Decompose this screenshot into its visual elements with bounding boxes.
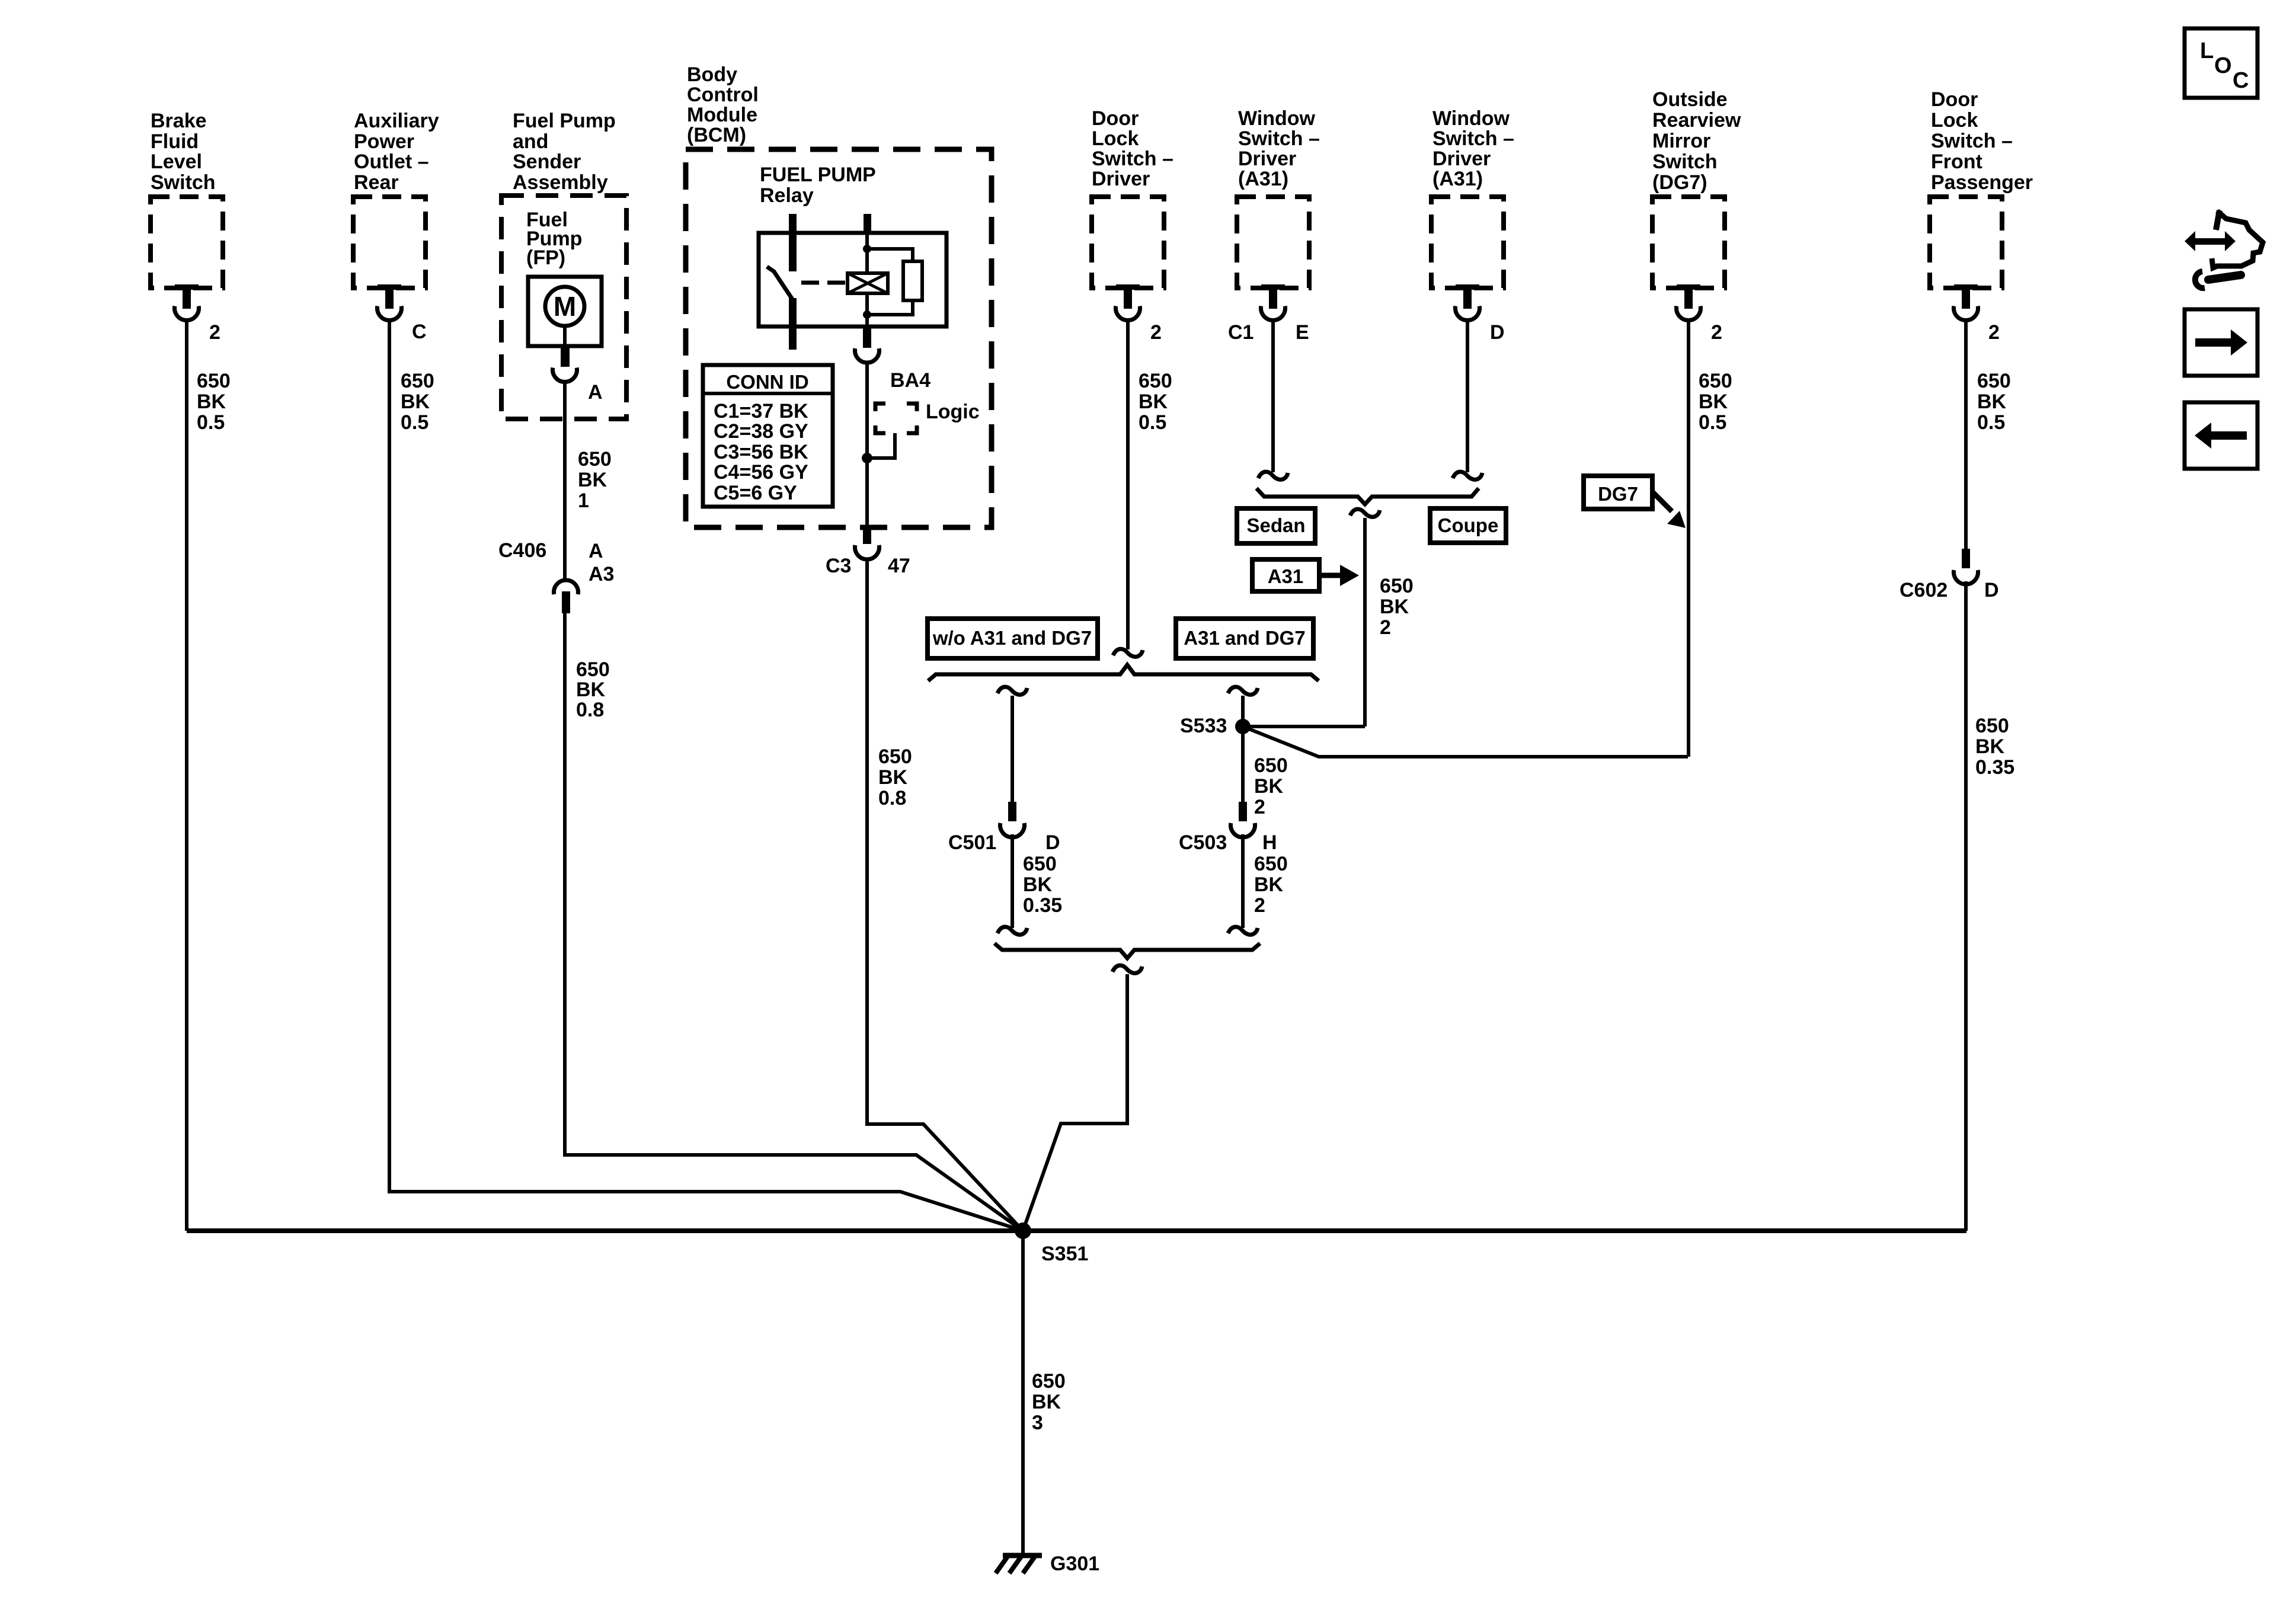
- relay resistor: [903, 261, 922, 300]
- svg-text:Door: Door: [1931, 88, 1978, 111]
- svg-text:650: 650: [1975, 715, 2009, 737]
- svg-text:Switch: Switch: [1652, 151, 1718, 173]
- wire: brake fluid switch to S351 (650 BK 0.5): [185, 320, 188, 1231]
- wire: C602 to S351 (650 BK 0.35): [1964, 581, 1968, 1231]
- wire: right option branch to S533: [1241, 696, 1245, 802]
- svg-text:0.35: 0.35: [1023, 894, 1062, 917]
- svg-text:D: D: [1984, 579, 1999, 601]
- svg-text:C: C: [412, 321, 427, 343]
- svg-text:Passenger: Passenger: [1931, 171, 2033, 194]
- wire label 650 BK 2: [1380, 575, 1414, 639]
- wire: logic to relay output: [867, 433, 895, 458]
- svg-text:Switch –: Switch –: [1092, 148, 1173, 170]
- svg-text:Front: Front: [1931, 151, 1982, 173]
- component label: Door Lock Switch - Front Passenger: [1931, 88, 2033, 194]
- svg-text:2: 2: [1254, 796, 1265, 818]
- option box: Sedan: [1237, 508, 1315, 543]
- svg-text:1: 1: [578, 489, 589, 512]
- component label: Brake Fluid Level Switch: [151, 110, 216, 194]
- wire: BCM C3-47 to S351 (650 BK 0.8): [867, 558, 1023, 1231]
- svg-text:C3: C3: [826, 555, 851, 577]
- component label: Window Switch - Driver (A31) #1: [1238, 107, 1320, 190]
- svg-text:BK: BK: [578, 469, 607, 491]
- svg-text:BK: BK: [1975, 735, 2005, 758]
- svg-text:2: 2: [1150, 321, 1162, 344]
- wire end hook: [1228, 927, 1258, 934]
- brace: option split: [928, 665, 1319, 681]
- svg-text:Lock: Lock: [1931, 109, 1978, 132]
- svg-text:S351: S351: [1041, 1243, 1088, 1265]
- wire label 650 BK 2: [1254, 853, 1288, 917]
- motor M circle: [545, 287, 584, 326]
- wire end hook: [1453, 472, 1482, 479]
- svg-text:2: 2: [209, 321, 220, 344]
- icon: double arrow: [2193, 238, 2228, 245]
- svg-text:A3: A3: [589, 563, 614, 585]
- wire end hook: [997, 927, 1027, 934]
- svg-text:Driver: Driver: [1432, 148, 1491, 170]
- hook: left option branch: [997, 687, 1027, 694]
- svg-text:(DG7): (DG7): [1652, 171, 1707, 194]
- callout box: DG7: [1584, 476, 1652, 509]
- svg-text:Assembly: Assembly: [513, 171, 608, 194]
- svg-text:FUEL PUMP: FUEL PUMP: [760, 164, 876, 186]
- component label: Window Switch - Driver (A31) #2: [1432, 107, 1514, 190]
- svg-text:650: 650: [1032, 1370, 1066, 1393]
- connector symbol C3 pin 47: [863, 527, 871, 544]
- svg-text:Coupe: Coupe: [1438, 514, 1499, 536]
- svg-text:BA4: BA4: [890, 369, 930, 392]
- connector C501: [1008, 802, 1016, 821]
- svg-text:D: D: [1045, 831, 1060, 854]
- brace: window switches join: [1256, 488, 1479, 504]
- svg-text:650: 650: [1254, 853, 1288, 875]
- svg-text:Rear: Rear: [354, 171, 399, 194]
- motor box FP: [528, 277, 602, 346]
- wire: aux power outlet to S351 (650 BK 0.5): [389, 320, 1023, 1231]
- wire label 650 BK 0.5: [1139, 370, 1172, 434]
- connector C503: [1239, 802, 1247, 821]
- wire label 650 BK 0.5: [1977, 370, 2011, 434]
- wire: C501 down (650 BK 0.35): [1011, 834, 1014, 928]
- component label: Door Lock Switch - Driver: [1092, 107, 1173, 190]
- svg-text:2: 2: [1988, 321, 2000, 344]
- svg-text:650: 650: [1380, 575, 1414, 597]
- svg-text:BK: BK: [1139, 391, 1168, 413]
- svg-text:A31 and DG7: A31 and DG7: [1184, 627, 1305, 649]
- svg-text:2: 2: [1254, 894, 1265, 917]
- legend box: LOC: [2185, 28, 2257, 98]
- svg-text:Outside: Outside: [1652, 88, 1728, 111]
- svg-text:Relay: Relay: [760, 184, 814, 207]
- svg-text:(BCM): (BCM): [687, 124, 746, 146]
- svg-text:BK: BK: [576, 678, 606, 701]
- wire: window brace to S533 (650 BK 2): [1363, 518, 1367, 726]
- svg-text:C2=38 GY: C2=38 GY: [714, 420, 808, 443]
- svg-text:C5=6 GY: C5=6 GY: [714, 482, 797, 504]
- wire label 650 BK 0.8: [576, 658, 610, 721]
- wire label 650 BK 0.5: [1699, 370, 1732, 434]
- relay coil box: [848, 273, 888, 293]
- svg-text:0.5: 0.5: [1699, 411, 1726, 434]
- module box: BCM: [686, 149, 992, 527]
- CONN ID table box: [703, 365, 833, 507]
- junction dot logic: [862, 453, 872, 463]
- svg-text:Brake: Brake: [151, 110, 207, 132]
- svg-text:Fluid: Fluid: [151, 130, 199, 153]
- wire label 650 BK 0.8: [878, 745, 912, 809]
- svg-text:Switch –: Switch –: [1432, 127, 1514, 150]
- connector box: Auxiliary Power Outlet: [353, 197, 426, 288]
- option box: A31 and DG7: [1176, 619, 1313, 658]
- svg-text:0.5: 0.5: [401, 411, 428, 434]
- connector box: Door Lock Switch Driver: [1092, 197, 1164, 288]
- svg-text:0.5: 0.5: [197, 411, 225, 434]
- svg-text:0.5: 0.5: [1139, 411, 1166, 434]
- logic box: [875, 404, 917, 433]
- svg-text:A: A: [589, 540, 603, 562]
- wire end hook: [1258, 472, 1288, 479]
- svg-text:C1=37 BK: C1=37 BK: [714, 400, 808, 422]
- svg-text:C: C: [2233, 68, 2249, 93]
- connector symbol: passenger door lock pin: [1954, 284, 1978, 320]
- svg-text:L: L: [2200, 39, 2214, 63]
- connector symbol: window switch 1 pin: [1261, 284, 1285, 320]
- wire label 650 BK 1: [578, 448, 612, 512]
- component label: Outside Rearview Mirror Switch (DG7): [1652, 88, 1741, 194]
- wire label 650 BK 0.5: [197, 370, 231, 434]
- icon: body outline: [2216, 210, 2220, 230]
- svg-text:C503: C503: [1179, 831, 1227, 854]
- wire: S533 to mirror switch branch: [1243, 726, 1688, 757]
- svg-text:H: H: [1262, 831, 1277, 854]
- svg-text:C406: C406: [498, 539, 546, 562]
- relay K1: FUEL PUMP Relay box: [759, 233, 946, 327]
- relay internal resistor branch: [867, 249, 913, 315]
- svg-text:C602: C602: [1900, 579, 1948, 601]
- relay coil X: [848, 273, 888, 293]
- svg-text:650: 650: [576, 658, 610, 681]
- brace: ground join: [994, 943, 1260, 958]
- relay switch blade: [767, 267, 792, 299]
- option box: w/o A31 and DG7: [928, 619, 1098, 658]
- svg-text:O: O: [2214, 53, 2232, 78]
- svg-text:S533: S533: [1180, 715, 1227, 737]
- svg-text:650: 650: [1699, 370, 1732, 392]
- svg-text:Power: Power: [354, 130, 414, 153]
- connector symbol: window switch 2 pin: [1456, 284, 1480, 320]
- svg-text:(A31): (A31): [1238, 168, 1288, 190]
- connector box: Window Switch Driver 2: [1431, 197, 1504, 288]
- wire: window switch 2 down to brace: [1466, 320, 1469, 472]
- relay junction dot upper: [863, 245, 871, 253]
- hook: right option branch: [1228, 687, 1258, 694]
- svg-text:Driver: Driver: [1238, 148, 1296, 170]
- wire: motor to pin A: [563, 326, 567, 346]
- hook below window brace: [1350, 509, 1380, 517]
- svg-text:Switch: Switch: [151, 171, 216, 194]
- ground G301: [1003, 1553, 1042, 1558]
- component label: Body Control Module (BCM): [687, 63, 759, 146]
- svg-text:A31: A31: [1268, 565, 1304, 587]
- callout box: A31: [1252, 559, 1319, 591]
- svg-text:Door: Door: [1092, 107, 1139, 130]
- svg-text:C501: C501: [948, 831, 996, 854]
- svg-text:0.5: 0.5: [1977, 411, 2005, 434]
- wire: fuel pump to C406 (650 BK 1): [563, 381, 567, 580]
- wire: C406 to S351 (650 BK 0.8): [565, 613, 1023, 1231]
- svg-text:47: 47: [888, 555, 910, 577]
- connector C602: [1962, 549, 1970, 568]
- A31 arrow: [1319, 573, 1340, 578]
- svg-text:Module: Module: [687, 104, 757, 126]
- svg-text:DG7: DG7: [1598, 483, 1638, 505]
- svg-text:BK: BK: [197, 391, 226, 413]
- DG7 arrow: [1652, 492, 1672, 511]
- svg-text:M: M: [554, 291, 576, 322]
- svg-text:650: 650: [578, 448, 612, 470]
- relay linkage dashed line: [801, 281, 845, 285]
- wire: mirror switch to S533 (650 BK 0.5): [1687, 320, 1690, 757]
- svg-text:0.8: 0.8: [576, 699, 604, 721]
- svg-text:Switch –: Switch –: [1238, 127, 1320, 150]
- connector box: Outside Rearview Mirror Switch: [1652, 197, 1725, 288]
- svg-text:BK: BK: [878, 766, 908, 789]
- svg-text:0.35: 0.35: [1975, 756, 2014, 779]
- wire end hook: [1113, 649, 1143, 657]
- wire: C503 down (650 BK 2): [1241, 834, 1245, 928]
- wire: S533 to window brace wire: [1243, 725, 1365, 728]
- svg-text:650: 650: [878, 745, 912, 768]
- wire: door lock switch driver (650 BK 0.5): [1126, 320, 1130, 649]
- svg-text:Fuel Pump: Fuel Pump: [513, 110, 616, 132]
- svg-text:CONN ID: CONN ID: [726, 371, 808, 393]
- icon box: arrow right: [2185, 309, 2257, 376]
- svg-text:BK: BK: [1699, 391, 1728, 413]
- svg-text:650: 650: [197, 370, 231, 392]
- icon: wrench: [2208, 275, 2241, 280]
- svg-text:Auxiliary: Auxiliary: [354, 110, 439, 132]
- connector symbol: brake fluid switch pin: [175, 284, 199, 320]
- svg-text:650: 650: [1977, 370, 2011, 392]
- svg-text:650: 650: [401, 370, 434, 392]
- svg-text:C1: C1: [1228, 321, 1253, 344]
- svg-text:650: 650: [1023, 853, 1057, 875]
- svg-text:BK: BK: [1032, 1391, 1061, 1413]
- connector symbol: fuel pump pin A: [561, 346, 570, 367]
- node S351: [1015, 1222, 1031, 1239]
- wire: left option branch to C501: [1011, 696, 1014, 802]
- svg-text:Outlet –: Outlet –: [354, 151, 429, 173]
- relay junction dot lower: [863, 311, 871, 319]
- svg-text:(A31): (A31): [1432, 168, 1483, 190]
- svg-text:650: 650: [1139, 370, 1172, 392]
- svg-text:w/o A31 and DG7: w/o A31 and DG7: [932, 627, 1092, 649]
- svg-text:Control: Control: [687, 84, 759, 106]
- wire: relay to BCM edge: [865, 361, 869, 527]
- relay pin: coil top: [864, 214, 871, 233]
- svg-text:E: E: [1296, 321, 1309, 344]
- svg-text:C3=56 BK: C3=56 BK: [714, 441, 808, 463]
- connector symbol BA4: [863, 327, 871, 348]
- svg-text:Level: Level: [151, 151, 202, 173]
- wire: window switch 1 down to brace: [1271, 320, 1275, 472]
- relay internal wire: coil branch: [865, 233, 869, 327]
- svg-text:0.8: 0.8: [878, 787, 906, 809]
- svg-text:G301: G301: [1050, 1553, 1099, 1575]
- component label: Auxiliary Power Outlet - Rear: [354, 110, 439, 194]
- connector box: Window Switch Driver 1: [1237, 197, 1309, 288]
- icon box: arrow left: [2185, 402, 2257, 469]
- svg-text:2: 2: [1380, 616, 1391, 639]
- svg-text:Sender: Sender: [513, 151, 581, 173]
- wire label 650 BK 0.35: [1975, 715, 2014, 779]
- svg-text:Window: Window: [1432, 107, 1510, 130]
- component label: Fuel Pump and Sender Assembly: [513, 110, 616, 194]
- wire label 650 BK 0.5: [401, 370, 434, 434]
- wire label 650 BK 2 (below S533): [1254, 754, 1288, 818]
- svg-text:Window: Window: [1238, 107, 1316, 130]
- svg-text:and: and: [513, 130, 548, 153]
- connector symbol: door lock switch driver pin: [1116, 284, 1140, 320]
- connector box: Door Lock Switch Front Passenger: [1930, 197, 2002, 288]
- option box: Coupe: [1430, 508, 1506, 543]
- svg-text:BK: BK: [1380, 596, 1409, 618]
- node S533: [1235, 719, 1251, 734]
- wire label 650 BK 3: [1032, 1370, 1066, 1434]
- connector symbol: aux power outlet pin: [378, 284, 402, 320]
- svg-text:BK: BK: [1023, 873, 1053, 896]
- wire: main ground bus to S351: [187, 1228, 1966, 1233]
- svg-text:3: 3: [1032, 1411, 1043, 1434]
- svg-text:A: A: [588, 381, 603, 404]
- svg-text:BK: BK: [1254, 775, 1284, 798]
- svg-text:C4=56 GY: C4=56 GY: [714, 461, 808, 484]
- wire: passenger door lock to C602 (650 BK 0.5): [1964, 320, 1968, 549]
- connector box: Brake Fluid Level Switch: [151, 197, 223, 288]
- svg-text:Logic: Logic: [926, 401, 980, 423]
- svg-text:650: 650: [1254, 754, 1288, 777]
- connector C406: [554, 580, 578, 594]
- wire: ground brace to S351: [1023, 974, 1127, 1231]
- connector symbol: mirror switch pin: [1677, 284, 1701, 320]
- svg-text:Driver: Driver: [1092, 168, 1150, 190]
- svg-text:D: D: [1490, 321, 1505, 344]
- svg-text:2: 2: [1711, 321, 1722, 344]
- label: FUEL PUMP Relay: [760, 164, 876, 207]
- CONN ID entries: [714, 400, 808, 504]
- svg-text:Switch –: Switch –: [1931, 130, 2013, 152]
- svg-text:BK: BK: [1254, 873, 1284, 896]
- relay pin: switch top: [789, 214, 797, 271]
- label: Fuel Pump (FP): [526, 209, 582, 269]
- hook below ground brace: [1112, 965, 1142, 973]
- svg-text:Sedan: Sedan: [1246, 514, 1305, 536]
- svg-text:Mirror: Mirror: [1652, 130, 1710, 152]
- svg-text:Body: Body: [687, 63, 737, 86]
- relay pin: switch bottom: [789, 298, 797, 350]
- svg-text:BK: BK: [401, 391, 430, 413]
- svg-text:BK: BK: [1977, 391, 2007, 413]
- assembly box: Fuel Pump and Sender Assembly: [501, 196, 626, 419]
- svg-text:Lock: Lock: [1092, 127, 1139, 150]
- wire label 650 BK 0.35: [1023, 853, 1062, 917]
- wire: S351 to G301 (650 BK 3): [1021, 1231, 1025, 1554]
- svg-text:Rearview: Rearview: [1652, 109, 1741, 132]
- svg-text:(FP): (FP): [526, 247, 565, 269]
